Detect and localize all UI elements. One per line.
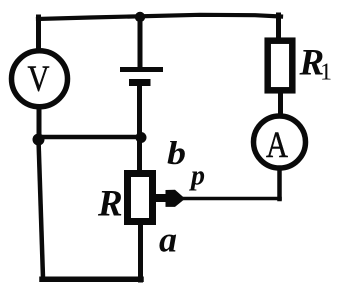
battery long plate positive (120, 67, 163, 72)
wire slider p to ammeter branch (182, 197, 280, 201)
svg-text:a: a (159, 220, 177, 260)
svg-text:b: b (167, 136, 186, 172)
wire ammeter top to resistor R1 (278, 92, 283, 115)
svg-text:R: R (97, 184, 123, 225)
rheostat slider bar (153, 194, 166, 202)
wire top-right corner down to R1 (276, 15, 281, 40)
wire left vertical down (39, 140, 44, 279)
svg-text:1: 1 (320, 60, 332, 86)
node junction center (136, 132, 147, 143)
wire top horizontal (38, 15, 281, 19)
rheostat R box (128, 174, 153, 222)
battery short plate negative (129, 79, 151, 86)
wire bottom horizontal (42, 277, 141, 283)
svg-text:p: p (189, 160, 205, 191)
wire top-left corner down to voltmeter (36, 17, 41, 50)
wire middle horizontal node to battery branch (39, 135, 142, 140)
svg-text:V: V (28, 59, 50, 100)
node junction left (33, 134, 45, 146)
svg-text:A: A (266, 125, 288, 166)
wire up to ammeter bottom (277, 169, 282, 199)
wire bottom-right vertical up to rheostat terminal a (138, 223, 143, 280)
rheostat slider arrowhead p (166, 190, 184, 207)
wire battery top lead (138, 16, 143, 68)
wire battery bottom lead to rheostat terminal b (137, 84, 142, 172)
voltmeter V1 circle (12, 51, 68, 107)
ammeter A1 circle (254, 116, 306, 168)
resistor R1 box (268, 41, 293, 91)
wire voltmeter bottom to node (37, 107, 42, 139)
node junction battery top (135, 12, 145, 22)
